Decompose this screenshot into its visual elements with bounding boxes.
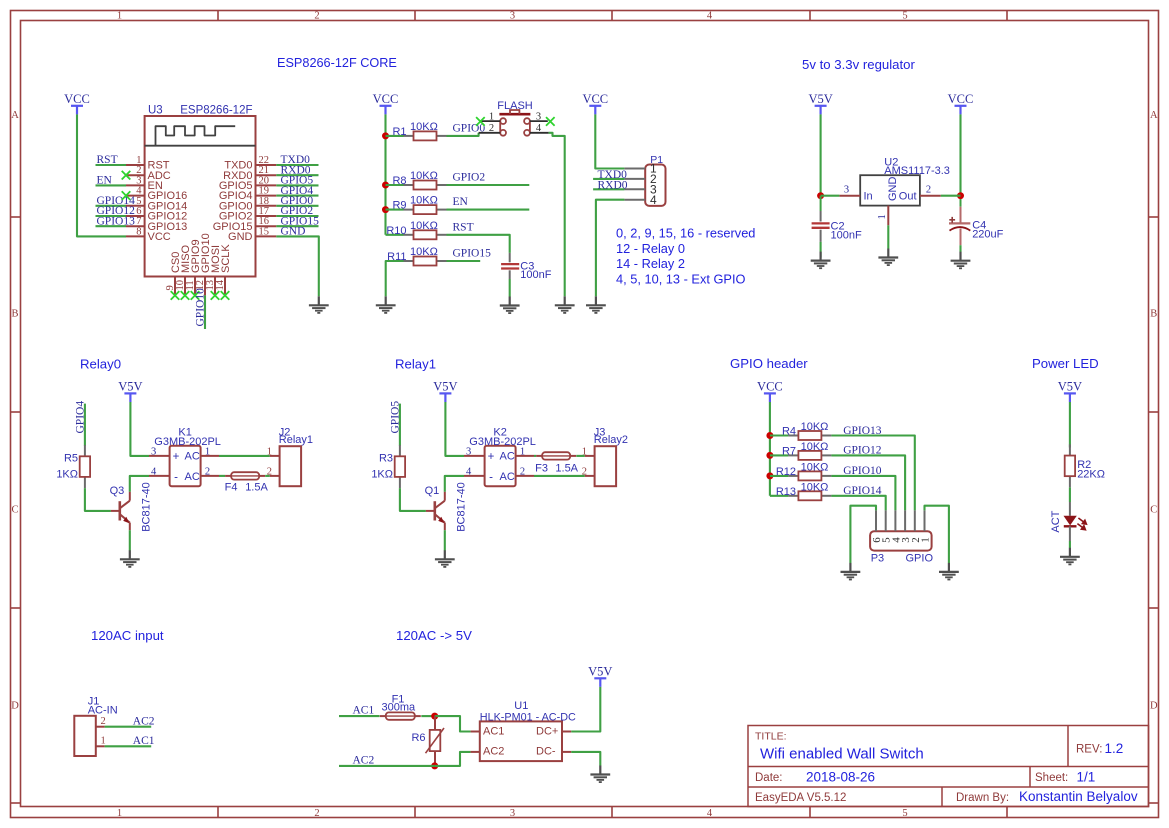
svg-text:10KΩ: 10KΩ bbox=[410, 170, 438, 182]
ground (LED) bbox=[1060, 548, 1080, 565]
svg-text:10KΩ: 10KΩ bbox=[410, 220, 438, 232]
wire K2 pin4 to Q1 collector bbox=[445, 476, 464, 492]
svg-text:300ma: 300ma bbox=[381, 702, 416, 714]
net label GPIO13 wire to P3 bbox=[831, 436, 914, 511]
power flag VCC (regulator output) bbox=[948, 92, 974, 114]
net label AC1 wire (J1 pin1) bbox=[105, 745, 152, 747]
power flag VCC (P1) bbox=[582, 92, 608, 114]
ground (Q1) bbox=[435, 550, 455, 567]
svg-text:GND: GND bbox=[281, 226, 306, 238]
transistor Q3 BC817-40 bbox=[111, 492, 130, 531]
svg-text:2: 2 bbox=[314, 808, 319, 819]
U3 pin 7 (GPIO13) bbox=[126, 225, 145, 227]
U3 pin 2 (ADC) bbox=[126, 174, 145, 176]
no-connect U3 bottom pin bbox=[171, 291, 180, 300]
resistor R9 10K bbox=[404, 205, 447, 214]
ground (R11) bbox=[376, 296, 396, 313]
no-connect U3 bottom pin bbox=[211, 291, 220, 300]
wire V5V to K2 pin3 bbox=[445, 402, 464, 456]
svg-text:AC1: AC1 bbox=[483, 726, 504, 738]
wire V5V to R2 bbox=[1069, 402, 1071, 448]
wire fuse F3 to J3 pin1 bbox=[576, 455, 585, 457]
svg-text:GPIO header: GPIO header bbox=[730, 356, 808, 371]
U3 pin 14 (SCLK) bbox=[224, 277, 226, 296]
svg-text:100nF: 100nF bbox=[831, 229, 862, 241]
svg-text:1: 1 bbox=[117, 808, 122, 819]
wire K2 pin2 to J3 pin2 bbox=[534, 475, 585, 477]
svg-text:1: 1 bbox=[520, 446, 525, 457]
net label RXD0 wire (U3 right) bbox=[276, 174, 318, 176]
svg-text:Date:: Date: bbox=[755, 772, 783, 784]
junction at U2 Out bbox=[957, 192, 964, 199]
svg-text:1: 1 bbox=[877, 214, 888, 219]
no-connect FLASH pin3 bbox=[546, 117, 555, 126]
svg-text:GPIO10: GPIO10 bbox=[843, 465, 882, 477]
U3 pin 10 (MISO) bbox=[184, 277, 186, 296]
connector J1 AC-IN bbox=[74, 696, 117, 757]
no-connect U3 pin4 bbox=[122, 191, 131, 200]
svg-text:1: 1 bbox=[205, 446, 210, 457]
svg-text:Out: Out bbox=[899, 190, 917, 202]
wire FLASH pin4 to ground bbox=[549, 133, 565, 296]
ground (P1) bbox=[586, 296, 606, 313]
junction at R1 bbox=[382, 132, 389, 139]
fuse F1 300ma bbox=[380, 712, 421, 719]
resistor R3 1K bbox=[395, 445, 405, 488]
svg-text:GND: GND bbox=[887, 177, 899, 202]
no-connect U3 pin2 bbox=[122, 171, 131, 180]
junction AC1/R6 bbox=[431, 713, 438, 720]
fuse F4 1.5A bbox=[225, 472, 265, 479]
svg-text:ESP8266-12F CORE: ESP8266-12F CORE bbox=[277, 56, 397, 70]
svg-text:R3: R3 bbox=[379, 453, 393, 465]
wire K1 pin4 to Q3 collector bbox=[130, 476, 149, 492]
LED ACT bbox=[1064, 502, 1087, 541]
net label GPIO15 wire (R11) bbox=[447, 260, 481, 262]
svg-text:100nF: 100nF bbox=[520, 269, 551, 281]
U3 pin 6 (GPIO12) bbox=[126, 215, 145, 217]
svg-text:AC: AC bbox=[500, 471, 515, 483]
wire Q3 emitter to ground bbox=[129, 530, 131, 550]
svg-text:4: 4 bbox=[466, 466, 472, 477]
power flag VCC (pull-up rail) bbox=[373, 92, 399, 114]
svg-text:5: 5 bbox=[902, 808, 907, 819]
net label GPIO2 wire (U3 right) bbox=[276, 215, 318, 217]
ground (FLASH) bbox=[555, 296, 575, 313]
svg-text:BC817-40: BC817-40 bbox=[141, 482, 153, 532]
note text GPIO assignments bbox=[616, 225, 755, 286]
svg-text:10KΩ: 10KΩ bbox=[801, 441, 829, 453]
wire R5 to Q3 base bbox=[85, 488, 111, 511]
svg-text:1KΩ: 1KΩ bbox=[56, 469, 78, 481]
wire VCC to U2 Out bbox=[959, 114, 961, 195]
svg-text:120AC input: 120AC input bbox=[91, 628, 164, 643]
svg-text:8: 8 bbox=[136, 226, 141, 237]
capacitor C3 100nF bbox=[501, 253, 519, 279]
wire P3 pin6 to ground bbox=[850, 506, 876, 563]
svg-text:4: 4 bbox=[707, 808, 713, 819]
net label AC1 wire (to F1) bbox=[339, 715, 380, 717]
U3 pin 8 (VCC) bbox=[126, 235, 145, 237]
wire C2 to ground bbox=[820, 242, 822, 258]
net label EN wire bbox=[96, 184, 127, 186]
no-connect FLASH pin1 bbox=[476, 117, 485, 126]
svg-text:DC+: DC+ bbox=[536, 726, 558, 738]
wire R11 to ground bbox=[386, 261, 404, 296]
junction on GPIO header rail bbox=[766, 452, 773, 459]
no-connect U3 bottom pin bbox=[221, 291, 230, 300]
wire U3 GND to ground bbox=[276, 236, 319, 296]
svg-text:RST: RST bbox=[97, 154, 118, 166]
relay K1 G3MB-202PL bbox=[149, 427, 221, 487]
U3 pin 5 (GPIO14) bbox=[126, 205, 145, 207]
svg-text:TITLE:: TITLE: bbox=[755, 731, 787, 743]
svg-text:R12: R12 bbox=[776, 466, 796, 478]
resistor R5 1K bbox=[80, 445, 90, 488]
junction at R9 bbox=[382, 206, 389, 213]
svg-text:VCC: VCC bbox=[948, 92, 974, 106]
module U1 HLK-PM01 bbox=[471, 700, 576, 761]
net label EN wire (R9) bbox=[447, 209, 530, 211]
net label GPIO10 wire (U3 pin12) bbox=[204, 295, 206, 329]
svg-text:AC1: AC1 bbox=[353, 705, 375, 717]
ground (C4) bbox=[951, 252, 971, 269]
svg-text:RST: RST bbox=[453, 221, 474, 233]
net label GPIO12 wire to P3 bbox=[831, 455, 905, 510]
wire U2 In bbox=[821, 195, 840, 197]
wire P3 pin1 to ground bbox=[925, 506, 949, 563]
net label GPIO14 wire bbox=[96, 205, 127, 207]
svg-text:VCC: VCC bbox=[148, 231, 171, 243]
svg-text:R7: R7 bbox=[782, 446, 796, 458]
wire AC2 junction to U1 bbox=[435, 752, 471, 766]
connector J3 Relay2 bbox=[582, 426, 628, 486]
svg-text:C: C bbox=[11, 505, 18, 516]
U3 pin 1 (RST) bbox=[126, 164, 145, 166]
net label GPIO12 wire bbox=[96, 215, 127, 217]
resistor R10 10K bbox=[404, 230, 447, 239]
svg-text:GPIO4: GPIO4 bbox=[74, 401, 86, 434]
net label GPIO2 wire (R8) bbox=[447, 184, 530, 186]
svg-text:10KΩ: 10KΩ bbox=[410, 195, 438, 207]
svg-text:AC2: AC2 bbox=[353, 754, 375, 766]
wire P1 pin4 to ground bbox=[596, 200, 625, 297]
power flag V5V (Power LED) bbox=[1058, 380, 1082, 402]
svg-text:VCC: VCC bbox=[582, 92, 608, 106]
svg-text:1/1: 1/1 bbox=[1077, 770, 1096, 785]
junction on GPIO header rail bbox=[766, 472, 773, 479]
svg-text:R1: R1 bbox=[392, 126, 406, 138]
net label GPIO14 wire to P3 bbox=[831, 496, 885, 511]
svg-text:3: 3 bbox=[510, 10, 515, 21]
svg-text:Sheet:: Sheet: bbox=[1035, 772, 1068, 784]
capacitor C4 220uF polarized bbox=[949, 199, 970, 245]
junction at U2 In bbox=[817, 192, 824, 199]
svg-text:4: 4 bbox=[151, 466, 157, 477]
svg-text:10KΩ: 10KΩ bbox=[410, 121, 438, 133]
svg-text:R13: R13 bbox=[776, 486, 796, 498]
svg-text:R4: R4 bbox=[782, 426, 796, 438]
svg-text:AC1: AC1 bbox=[133, 735, 155, 747]
svg-text:R8: R8 bbox=[392, 175, 406, 187]
svg-text:2: 2 bbox=[100, 716, 105, 727]
regulator U2 AMS1117-3.3 bbox=[839, 156, 950, 225]
U3 pin 16 (GPIO15) bbox=[256, 225, 277, 227]
junction at R8 bbox=[382, 182, 389, 189]
svg-text:1.5A: 1.5A bbox=[555, 462, 578, 474]
wire rail to R1 bbox=[386, 135, 404, 137]
svg-text:1: 1 bbox=[117, 10, 122, 21]
connector P1 bbox=[645, 165, 665, 206]
svg-text:V5V: V5V bbox=[1058, 380, 1082, 394]
no-connect U3 bottom pin bbox=[191, 291, 200, 300]
svg-text:1: 1 bbox=[267, 446, 272, 457]
svg-text:Q3: Q3 bbox=[110, 485, 125, 497]
svg-text:ACT: ACT bbox=[1050, 510, 1062, 532]
wire rail to R7 bbox=[770, 454, 789, 456]
resistor R8 10K bbox=[404, 181, 447, 190]
net label RST wire (R10 to C3) bbox=[447, 235, 510, 253]
wire V5V to K1 pin3 bbox=[130, 402, 149, 456]
wire K1 pin1 to J2 pin1 bbox=[219, 455, 270, 457]
wire C4 to ground bbox=[959, 245, 961, 252]
net label TXD0 wire (P1 pin2) bbox=[593, 178, 624, 180]
ground (U2) bbox=[878, 249, 898, 266]
resistor R13 10K bbox=[788, 491, 831, 500]
net label TXD0 wire (U3 right) bbox=[276, 164, 318, 166]
svg-text:U3: U3 bbox=[148, 105, 163, 117]
svg-text:VCC: VCC bbox=[373, 92, 399, 106]
U3 pin 19 (GPIO4) bbox=[256, 195, 277, 197]
connector J2 Relay1 bbox=[267, 426, 313, 486]
wire C3 to ground bbox=[509, 279, 511, 297]
svg-text:3: 3 bbox=[466, 446, 471, 457]
net label GPIO0 wire (R1 to SW1) bbox=[447, 133, 479, 136]
svg-text:R5: R5 bbox=[64, 453, 78, 465]
wire U1 DC+ to V5V bbox=[571, 687, 600, 732]
relay K2 G3MB-202PL bbox=[464, 427, 536, 487]
resistor R1 10K bbox=[404, 131, 447, 140]
resistor R4 10K bbox=[788, 431, 831, 440]
svg-text:EN: EN bbox=[453, 196, 469, 208]
svg-text:GPIO13: GPIO13 bbox=[97, 215, 136, 227]
svg-text:2018-08-26: 2018-08-26 bbox=[806, 770, 875, 785]
wire rail to R13 bbox=[770, 495, 789, 497]
pushbutton FLASH bbox=[479, 100, 549, 136]
svg-text:Q1: Q1 bbox=[425, 485, 440, 497]
U3 pin 12 (GPIO10) bbox=[204, 277, 206, 296]
wire F1 to junction bbox=[421, 715, 434, 717]
junction AC2/R6 bbox=[431, 762, 438, 769]
power flag V5V (R3 section) bbox=[433, 380, 457, 402]
wire R3 to Q1 base bbox=[400, 488, 426, 511]
svg-text:1.5A: 1.5A bbox=[245, 481, 268, 493]
svg-text:F3: F3 bbox=[535, 462, 548, 474]
svg-text:GPIO15: GPIO15 bbox=[453, 248, 492, 260]
svg-text:3: 3 bbox=[536, 111, 541, 122]
svg-text:Drawn By:: Drawn By: bbox=[956, 792, 1009, 804]
svg-text:Konstantin Belyalov: Konstantin Belyalov bbox=[1019, 789, 1138, 804]
svg-text:220uF: 220uF bbox=[972, 228, 1003, 240]
svg-text:120AC -> 5V: 120AC -> 5V bbox=[396, 628, 472, 643]
resistor R12 10K bbox=[788, 471, 831, 480]
svg-text:2: 2 bbox=[926, 185, 931, 196]
net label RST wire bbox=[96, 164, 127, 166]
svg-text:Relay1: Relay1 bbox=[279, 434, 313, 446]
svg-text:4: 4 bbox=[536, 123, 542, 134]
svg-text:C: C bbox=[1150, 505, 1157, 516]
resistor R2 22K bbox=[1065, 444, 1075, 487]
U3 pin 11 (GPIO9) bbox=[194, 277, 196, 296]
svg-text:DC-: DC- bbox=[536, 746, 556, 758]
svg-text:EasyEDA V5.5.12: EasyEDA V5.5.12 bbox=[755, 792, 846, 804]
svg-text:P3: P3 bbox=[871, 552, 884, 564]
transistor Q1 BC817-40 bbox=[426, 492, 445, 531]
svg-text:AC: AC bbox=[500, 450, 515, 462]
svg-text:Relay1: Relay1 bbox=[395, 357, 436, 372]
svg-text:F4: F4 bbox=[225, 481, 238, 493]
svg-text:GPIO10: GPIO10 bbox=[194, 288, 206, 327]
wire K1 pin2 to fuse F4 bbox=[219, 475, 225, 477]
svg-text:R10: R10 bbox=[386, 225, 406, 237]
svg-text:EN: EN bbox=[97, 175, 113, 187]
svg-text:10KΩ: 10KΩ bbox=[801, 462, 829, 474]
net label RXD0 wire (P1 pin3) bbox=[593, 188, 624, 190]
svg-text:G3MB-202PL: G3MB-202PL bbox=[154, 436, 221, 448]
svg-text:AC: AC bbox=[185, 450, 200, 462]
power flag V5V (R5 section) bbox=[118, 380, 142, 402]
svg-text:3: 3 bbox=[844, 185, 849, 196]
wire rail to R9 bbox=[386, 209, 404, 211]
svg-text:2: 2 bbox=[520, 466, 525, 477]
svg-text:15: 15 bbox=[259, 226, 270, 237]
svg-text:1: 1 bbox=[100, 736, 105, 747]
P1 pin 1 bbox=[624, 168, 645, 170]
net label AC2 wire (to junction) bbox=[339, 765, 435, 767]
svg-text:2: 2 bbox=[205, 466, 210, 477]
fuse F3 1.5A bbox=[536, 452, 576, 459]
svg-text:1KΩ: 1KΩ bbox=[371, 469, 393, 481]
connector P3 GPIO bbox=[870, 510, 933, 564]
svg-text:+: + bbox=[173, 451, 180, 463]
U3 pin 20 (GPIO5) bbox=[256, 184, 277, 186]
svg-text:10KΩ: 10KΩ bbox=[801, 481, 829, 493]
power flag V5V (regulator input) bbox=[808, 92, 832, 114]
net label GPIO5 wire bbox=[399, 404, 401, 446]
wire fuse F4 to J2 pin2 bbox=[265, 475, 270, 477]
svg-text:14: 14 bbox=[215, 279, 226, 290]
svg-text:A: A bbox=[11, 110, 19, 121]
svg-text:Wifi enabled Wall Switch: Wifi enabled Wall Switch bbox=[760, 746, 924, 763]
wire Q1 emitter to ground bbox=[444, 530, 446, 550]
svg-text:22KΩ: 22KΩ bbox=[1077, 469, 1105, 481]
U3 antenna symbol bbox=[145, 126, 256, 146]
U3 pin 18 (GPIO0) bbox=[256, 205, 277, 207]
svg-text:0, 2, 9, 15, 16 - reserved: 0, 2, 9, 15, 16 - reserved bbox=[616, 225, 755, 240]
wire LED to ground bbox=[1069, 541, 1071, 548]
ground (Q3) bbox=[120, 550, 140, 567]
svg-text:R9: R9 bbox=[392, 200, 406, 212]
P1 pin 2 bbox=[624, 178, 645, 180]
svg-text:5v to 3.3v regulator: 5v to 3.3v regulator bbox=[802, 57, 916, 72]
svg-text:4: 4 bbox=[707, 10, 713, 21]
svg-text:D: D bbox=[1150, 701, 1158, 712]
wire rail to R8 bbox=[386, 184, 404, 186]
U3 pin 3 (EN) bbox=[126, 184, 145, 186]
svg-text:Power LED: Power LED bbox=[1032, 356, 1099, 371]
ground (P3 left) bbox=[841, 563, 861, 580]
svg-text:V5V: V5V bbox=[808, 92, 832, 106]
power flag V5V (U1 DC+) bbox=[588, 665, 612, 687]
svg-text:AC: AC bbox=[185, 471, 200, 483]
svg-text:12 - Relay 0: 12 - Relay 0 bbox=[616, 241, 685, 256]
ground (C3) bbox=[500, 297, 520, 314]
wire U1 DC- to ground bbox=[571, 752, 600, 766]
svg-text:B: B bbox=[1150, 309, 1157, 320]
U3 pin 9 (CS0) bbox=[174, 277, 176, 296]
wire AC1 junction to U1 bbox=[435, 716, 471, 731]
svg-text:14 - Relay 2: 14 - Relay 2 bbox=[616, 256, 685, 271]
svg-text:VCC: VCC bbox=[757, 380, 783, 394]
wire VCC to P1 pin1 bbox=[595, 114, 624, 168]
svg-text:GND: GND bbox=[228, 231, 253, 243]
U3 pin 21 (RXD0) bbox=[256, 174, 277, 176]
svg-text:REV:: REV: bbox=[1076, 744, 1102, 756]
svg-text:3: 3 bbox=[510, 808, 515, 819]
svg-text:10KΩ: 10KΩ bbox=[801, 421, 829, 433]
svg-text:SCLK: SCLK bbox=[220, 244, 232, 273]
net label GPIO0 wire (U3 right) bbox=[276, 205, 318, 207]
net label GPIO4 wire (U3 right) bbox=[276, 195, 318, 197]
svg-text:1: 1 bbox=[582, 446, 587, 457]
svg-text:R6: R6 bbox=[411, 732, 425, 744]
svg-text:VCC: VCC bbox=[64, 92, 90, 106]
svg-text:2: 2 bbox=[582, 466, 587, 477]
ground (P3 right) bbox=[939, 563, 959, 580]
svg-text:B: B bbox=[11, 309, 18, 320]
svg-text:G3MB-202PL: G3MB-202PL bbox=[469, 436, 536, 448]
svg-text:V5V: V5V bbox=[118, 380, 142, 394]
no-connect U3 bottom pin bbox=[181, 291, 190, 300]
svg-text:1: 1 bbox=[489, 111, 494, 122]
svg-text:V5V: V5V bbox=[588, 665, 612, 679]
wire rail to R12 bbox=[770, 475, 789, 477]
wire U2 Out bbox=[941, 195, 961, 197]
svg-text:GPIO5: GPIO5 bbox=[389, 401, 401, 434]
svg-text:AC2: AC2 bbox=[133, 715, 155, 727]
wire VCC pull-up rail bbox=[384, 114, 386, 234]
net label GPIO13 wire bbox=[96, 225, 127, 227]
svg-text:D: D bbox=[11, 701, 19, 712]
svg-text:2: 2 bbox=[267, 466, 272, 477]
svg-text:ESP8266-12F: ESP8266-12F bbox=[180, 105, 252, 117]
svg-text:-: - bbox=[174, 472, 178, 484]
wire rail to R4 bbox=[770, 434, 789, 436]
power flag VCC (U3 pin 8) bbox=[64, 92, 90, 114]
svg-text:4: 4 bbox=[650, 193, 657, 207]
svg-text:BC817-40: BC817-40 bbox=[456, 482, 468, 532]
wire VCC to U3 pin8 bbox=[77, 114, 126, 236]
resistor R7 10K bbox=[788, 451, 831, 460]
svg-text:2: 2 bbox=[314, 10, 319, 21]
svg-text:Relay0: Relay0 bbox=[80, 357, 121, 372]
svg-text:RXD0: RXD0 bbox=[598, 179, 628, 191]
net label GPIO10 wire to P3 bbox=[831, 476, 895, 511]
capacitor C2 100nF bbox=[812, 196, 830, 242]
wire rail to R10 bbox=[386, 234, 404, 236]
varistor R6 bbox=[426, 716, 445, 766]
svg-text:A: A bbox=[1150, 110, 1158, 121]
